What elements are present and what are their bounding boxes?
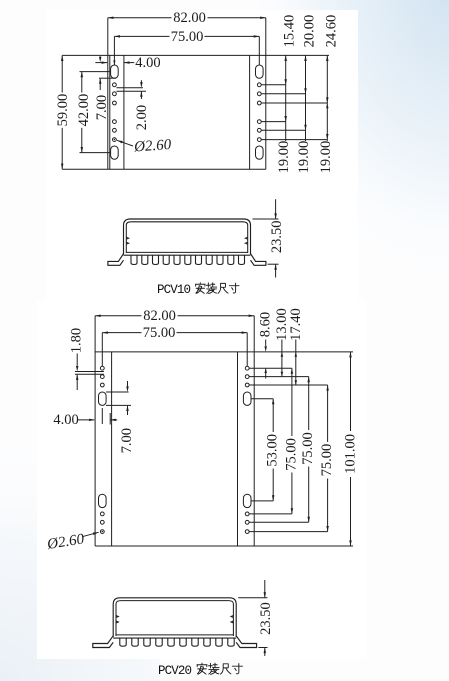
svg-text:75.00: 75.00 [143,325,176,341]
dim 53.00 (slot center spacing) [272,399,274,432]
svg-text:8.60: 8.60 [258,312,274,337]
PCV20 profile inner wall line [116,601,233,636]
PCV10 body right edge [265,18,267,169]
PCV10 left pin holes lower group [113,120,117,124]
PCV10 profile enclosure outline [124,219,251,254]
svg-text:PCV20: PCV20 [158,664,192,678]
dim 19.00 first (rows 1-4) [284,116,287,122]
PCV10 left flange inner line [123,55,125,169]
white panel of PCV20 drawing image [37,300,366,659]
svg-text:75.00: 75.00 [283,438,299,471]
svg-text:75.00: 75.00 [171,29,204,45]
svg-text:19.00: 19.00 [296,141,312,174]
PCV20 right hole leader lines upper [249,367,292,369]
svg-text:20.00: 20.00 [302,15,318,48]
PCV10 heatsink fins [131,255,245,264]
PCV10 left reference hole with center dot [113,138,117,142]
dim 42.00 (PCV10 slot center spacing) [80,71,112,73]
dim 82.00 (PCV20 overall width) [95,315,141,317]
PCV20 right lower pin holes [245,512,249,516]
PCV20 right lower slot [243,494,251,507]
PCV10 right flange inner line [249,55,251,169]
svg-text:19.00: 19.00 [276,141,292,174]
PCV20 right upper pin holes [245,366,249,370]
white panel of PCV10 drawing image [46,10,358,300]
PCV20 slot stubs to 53.00 dim [251,398,273,400]
svg-text:17.40: 17.40 [288,308,304,341]
PCV20 profile left mounting foot [93,636,113,648]
PCV10 profile left wall notch [126,237,128,244]
dim 82.00 (PCV10 overall width) [108,17,172,19]
svg-text:53.00: 53.00 [265,434,281,467]
PCV20 body right edge [253,316,255,546]
PCV20 profile right mounting foot [236,636,256,648]
PCV20 right upper slot [243,392,251,405]
svg-text:75.00: 75.00 [319,444,335,477]
dim 75.00 extension lines down to holes [101,333,103,366]
dim 7.00 (PCV20 slot length) [106,391,129,393]
svg-text:Ø2.60: Ø2.60 [133,137,173,156]
svg-text:82.00: 82.00 [173,10,206,26]
svg-text:1.80: 1.80 [69,328,85,353]
PCV20 right hole leader lines lower [249,513,292,515]
dim 15.40 (top edge to hole row 1) [285,55,287,121]
dim 4.00 (PCV10, slot to flange line) [95,62,107,64]
PCV10 right top mounting slot [256,65,264,78]
svg-text:75.00: 75.00 [300,432,316,465]
svg-text:19.00: 19.00 [318,141,334,174]
PCV20 profile floor lines [116,634,233,636]
svg-text:82.00: 82.00 [143,308,176,324]
dim 75.00 (PCV10 slot spacing) [114,35,169,37]
dim 101.00 (PCV20 body height) [350,352,352,431]
dim 75.00 second (rows 2) [308,377,310,430]
PCV10 left pin holes upper group [113,83,117,87]
PCV20 left flange inner line [111,352,113,546]
PCV20 left lower slot [99,494,107,507]
PCV10 body left edge [107,18,109,169]
PCV10 right hole leader lines [261,84,285,86]
dim 7.00 (PCV10 slot length) [99,55,101,57]
PCV20 profile left wall notch [116,616,118,624]
svg-text:PCV10: PCV10 [157,283,191,297]
PCV20 right flange inner line [237,352,239,546]
dim 24.60 (top edge to hole row 3) [326,55,328,139]
dim 75.00 first (rows 1) [291,368,293,436]
PCV10 body bottom edge (extended left for 59.00) [62,168,266,170]
svg-text:24.60: 24.60 [323,15,339,48]
svg-text:2.00: 2.00 [134,105,150,130]
svg-text:7.00: 7.00 [119,428,135,453]
svg-text:59.00: 59.00 [55,94,71,127]
svg-text:7.00: 7.00 [94,95,110,120]
PCV20 profile right wall notch [231,616,233,624]
PCV20 body left edge [94,316,96,546]
caption hanzi an-zhuang-chi-cun for PCV20 [197,663,207,674]
PCV10 profile right mounting foot [251,254,266,266]
PCV10 profile floor lines [126,251,247,253]
PCV20 profile enclosure outline [113,598,236,637]
svg-text:42.00: 42.00 [76,94,92,127]
caption hanzi an-zhuang-chi-cun for PCV10 [195,283,205,294]
svg-text:4.00: 4.00 [53,412,78,428]
PCV10 profile left mounting foot [108,254,124,266]
svg-text:101.00: 101.00 [343,434,359,474]
PCV10 profile inner wall line [126,222,247,253]
dim 19.00 third (rows 3-6) [326,103,329,108]
svg-text:23.50: 23.50 [269,220,285,253]
PCV10 right bottom mounting slot [256,146,264,159]
leader and label Ø2.60 (PCV20) [82,532,98,536]
dim 2.00 (PCV10 pin row offset) [116,87,143,89]
PCV20 left upper pin holes [100,366,104,370]
PCV10 left top mounting slot [111,65,119,78]
PCV10 profile right wall notch [245,237,247,244]
dim 20.00 (top edge to hole row 2) [305,55,307,130]
PCV10 left bottom mounting slot [111,146,119,159]
PCV10 right pin holes lower group [257,120,261,124]
PCV10 right pin holes upper group [257,83,261,87]
PCV20 heatsink fins [120,638,234,646]
PCV20 body bottom edge (extended right for 101.00) [95,545,353,547]
dim 75.00 extension lines down to slots [113,36,115,64]
leader and label Ø2.60 (PCV10) [117,140,133,146]
dim 23.50 (PCV10 profile height) [253,218,279,220]
dim 75.00 (PCV20 slot spacing) [102,332,141,334]
PCV20 left upper slot [99,392,107,405]
PCV20 body top edge (extended right for dims) [95,351,353,353]
svg-text:4.00: 4.00 [135,55,160,71]
PCV20 left lower pin holes with reference hole [100,512,104,516]
svg-text:15.40: 15.40 [282,15,298,48]
dim 59.00 (PCV10 body height) [61,55,63,92]
PCV10 body top edge (extended for dims) [62,54,329,56]
dim 23.50 (PCV20 profile height) [238,597,267,599]
svg-text:23.50: 23.50 [258,602,274,635]
dim 19.00 second (rows 2-5) [304,125,307,131]
dim 75.00 third (rows 3) [327,385,329,442]
